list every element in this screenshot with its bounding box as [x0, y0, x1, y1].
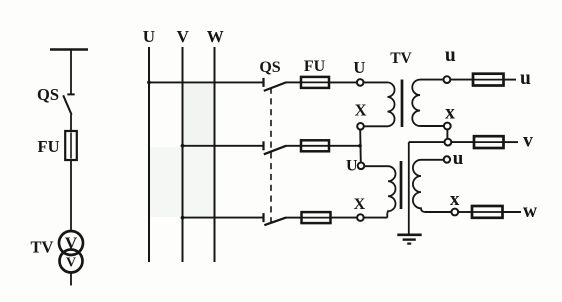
svg-text:v: v [523, 131, 533, 152]
T2 core [400, 161, 403, 209]
QS blade row2 [264, 146, 286, 155]
svg-text:X: X [355, 101, 367, 120]
terminal X (T2 primary) [357, 214, 364, 221]
fuse FU (w phase secondary) [472, 206, 503, 218]
terminal v node [445, 139, 452, 146]
T2 primary winding [387, 166, 395, 217]
svg-text:TV: TV [31, 238, 54, 257]
svg-text:u: u [445, 45, 456, 66]
terminal x (T1 secondary) [444, 123, 451, 130]
svg-text:W: W [207, 27, 224, 46]
svg-text:V: V [177, 27, 190, 46]
terminal U (T1 primary) [357, 79, 364, 86]
wire T2 secondary bottom to x terminal [425, 211, 451, 213]
QS contact tick row3 [262, 213, 264, 222]
QS contact tick row1 [262, 78, 264, 87]
wire fuse to u output [504, 79, 517, 81]
voltage transformer TV (two overlapping circles) [59, 231, 83, 255]
grounded wire (vertical) [408, 142, 410, 234]
wire busbar to QS [70, 50, 72, 94]
svg-text:x: x [445, 102, 455, 123]
terminal u (T1 secondary) [444, 76, 451, 83]
bus W [214, 47, 216, 262]
T1 primary winding [388, 82, 395, 126]
svg-text:x: x [450, 189, 460, 210]
svg-text:u: u [520, 68, 531, 89]
wire v node to ground wire [409, 141, 445, 143]
wire T1 secondary bottom to x terminal [420, 125, 444, 127]
wire winding to X terminal [364, 125, 388, 127]
wire U terminal to winding [364, 81, 388, 83]
T1 secondary winding [412, 80, 420, 126]
wire row2 FU to junction [329, 145, 360, 147]
svg-text:U: U [346, 158, 358, 175]
busbar (top horizontal bar) [50, 48, 88, 50]
wire row2 QS to FU [286, 145, 302, 147]
wire row3 QS to FU [286, 217, 302, 219]
wire v node to fuse [451, 141, 474, 143]
wire T2 secondary top to u terminal [421, 159, 444, 161]
terminal X (T1 primary) [357, 123, 364, 130]
svg-text:U: U [143, 27, 155, 46]
svg-text:X: X [354, 196, 366, 213]
fuse FU (v phase secondary) [474, 136, 504, 148]
wire x terminal down to v node [446, 129, 448, 138]
wire T1.X / row2 / T2.U junction vertical [359, 130, 362, 163]
bus V [182, 47, 184, 262]
row 2 wire (V phase) [183, 145, 264, 147]
terminal U (T2 primary) [358, 163, 365, 170]
svg-text:V: V [66, 256, 76, 271]
bus U [148, 47, 150, 262]
disconnector QS blade [63, 95, 71, 115]
wire fuse to v output [504, 141, 519, 143]
QS fixed contact tick [67, 93, 74, 95]
wire row3 FU to X terminal [331, 217, 358, 219]
wire QS to FU [70, 115, 72, 131]
fuse FU row2 [301, 140, 329, 151]
wire row1 FU to U terminal [329, 81, 357, 83]
svg-text:QS: QS [259, 59, 280, 76]
wire row1 QS to FU [286, 81, 302, 83]
T2 secondary winding [413, 160, 425, 212]
wire below TV [70, 273, 72, 286]
row 3 wire [183, 217, 264, 219]
wire FU to TV [70, 160, 72, 232]
svg-text:u: u [453, 148, 464, 169]
svg-text:FU: FU [38, 137, 60, 156]
terminal x (T2 secondary) [451, 209, 458, 216]
wire T1 secondary top to u terminal [420, 79, 444, 81]
row 1 wire (U phase) [149, 81, 264, 83]
QS contact tick row2 [262, 141, 264, 150]
svg-text:V: V [65, 234, 78, 253]
disconnector QS linkage (dashed) [270, 88, 272, 224]
fuse FU (u phase secondary) [473, 74, 504, 86]
fuse FU (left) [65, 131, 77, 160]
wire X terminal to winding bottom [364, 217, 388, 219]
svg-text:w: w [523, 201, 537, 222]
wire u terminal to fuse [450, 79, 473, 81]
wire U terminal to T2 winding [364, 165, 388, 167]
T1 core [401, 80, 404, 128]
svg-text:FU: FU [304, 58, 326, 75]
svg-text:QS: QS [37, 85, 59, 104]
fuse FU row3 [302, 212, 331, 223]
ground [397, 233, 421, 236]
QS blade row1 [264, 82, 286, 91]
wire x terminal to fuse [458, 211, 472, 213]
svg-text:TV: TV [390, 50, 412, 67]
svg-text:U: U [353, 58, 365, 77]
wire fuse to w output [503, 211, 522, 213]
terminal u (T2 secondary) [444, 156, 450, 162]
fuse FU row1 [301, 77, 329, 88]
QS blade row3 [264, 218, 286, 226]
